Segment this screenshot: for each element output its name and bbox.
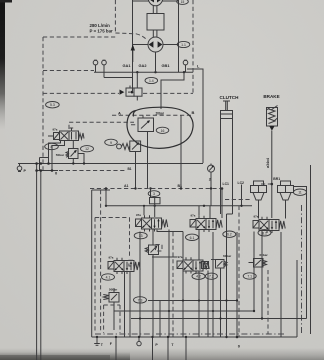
label oval (7.1) [243, 273, 256, 279]
line F to edge [115, 337, 117, 360]
svg-text:A1: A1 [124, 184, 129, 188]
wire drop x169 [168, 230, 170, 338]
LS arrow to pump [131, 45, 135, 63]
label oval (9) [105, 139, 118, 145]
shuttle LC2 [278, 181, 294, 219]
label oval (13) [134, 232, 147, 238]
dashed drop x239 [238, 206, 240, 337]
svg-text:BR1: BR1 [273, 177, 280, 181]
junction GA2 [136, 71, 138, 73]
dashed LC pilot line [90, 188, 223, 190]
test port P left [17, 164, 22, 172]
line P to edge [152, 337, 154, 360]
svg-text:7.1: 7.1 [247, 275, 252, 279]
wire right rail [310, 165, 312, 334]
bus solid [92, 336, 297, 338]
label oval (7.3) [134, 297, 147, 303]
svg-text:50bar: 50bar [109, 288, 118, 292]
wire left field drop [91, 190, 93, 337]
wire rail T horizontal [18, 163, 203, 165]
dashed drop x129.5 [129, 218, 131, 259]
label oval (8) [45, 143, 59, 149]
svg-text:4.2: 4.2 [196, 275, 201, 279]
label oval (12) [81, 146, 94, 152]
wire horizontal y311 [114, 310, 254, 312]
wire rail P horizontal [37, 170, 58, 172]
svg-text:60bar: 60bar [259, 253, 268, 257]
wire GA2 down to valve 1.4 [136, 72, 138, 88]
svg-text:97a: 97a [178, 255, 183, 259]
relief R1 [145, 245, 162, 255]
test port GA2 [102, 60, 107, 77]
label oval (11) [294, 189, 307, 195]
pump P1 [148, 37, 163, 52]
label oval (4.1) [102, 274, 115, 280]
relief R3 60bar [249, 253, 269, 267]
svg-text:P = 175 bar: P = 175 bar [90, 29, 114, 34]
svg-text:GA1: GA1 [123, 63, 132, 68]
wire frame right vertical [178, 0, 180, 72]
dashed enclosure right vertical [192, 0, 194, 93]
supply manifold line [106, 205, 252, 207]
valve 4.1 (V4) [108, 258, 140, 274]
wire clutch line down [226, 214, 228, 337]
port drain circle [137, 337, 141, 346]
wire stub vertical [39, 158, 41, 171]
dash-dot right rail [301, 205, 303, 335]
junction dots on LC line [105, 187, 224, 190]
junction BR1 [271, 183, 274, 186]
junctions y311 [168, 310, 255, 312]
junctions y300 [182, 299, 238, 301]
wire valve8 port B down [52, 141, 65, 171]
dashed pilot GA row [43, 70, 94, 72]
port T1 [94, 337, 100, 345]
wire horizontal y300 [148, 300, 237, 302]
dashed enclosure top [43, 36, 115, 38]
svg-text:8.1: 8.1 [262, 231, 267, 235]
valve 8.1 (C) [253, 217, 285, 233]
junction supply left [105, 205, 107, 207]
dashed crossline y93 left [43, 92, 119, 94]
label oval (8.1) [258, 230, 271, 236]
svg-text:97a: 97a [254, 215, 259, 219]
wire left drop pair B [40, 171, 42, 360]
wire brake line down [271, 131, 273, 218]
test port GA1 [93, 60, 98, 72]
junctions y318 [139, 317, 263, 319]
valve 8 (directional) [48, 128, 84, 141]
svg-text:CLUTCH: CLUTCH [220, 95, 240, 100]
junction supply B [203, 205, 205, 207]
shaft coupling upper [153, 6, 157, 14]
wire drop x160 [159, 301, 161, 338]
wire corner into field [92, 189, 110, 191]
pilot boxlet V4 [129, 260, 134, 266]
dashed rail 0 [59, 170, 126, 172]
clutch master cylinder [221, 101, 233, 214]
dashed drop x100.6 [100, 190, 102, 332]
svg-text:16: 16 [161, 129, 165, 133]
dashed crossline y93 right [143, 92, 193, 94]
relief valve 9 [117, 141, 141, 152]
label oval (16) [156, 127, 169, 133]
wire drop x220.5 [220, 268, 222, 337]
label oval (1.4) [145, 77, 158, 83]
wire L port corner [187, 69, 203, 163]
dashed drop x173 [172, 232, 174, 337]
motor M1 (top circle, cut off) [148, 0, 162, 6]
wire drop x281 [280, 232, 282, 337]
label oval (6.1) [186, 234, 199, 240]
junction pump drain [154, 71, 156, 73]
wire R1 down [152, 255, 154, 338]
svg-text:7.3: 7.3 [138, 298, 143, 302]
svg-text:ø34x4: ø34x4 [266, 158, 270, 168]
brake spring actuator [267, 106, 278, 131]
line T2 to edge [167, 337, 169, 360]
label oval (7.2) [205, 273, 217, 279]
svg-text:97a: 97a [53, 128, 58, 132]
svg-text:LC1: LC1 [223, 182, 230, 186]
svg-text:1.4: 1.4 [149, 79, 154, 83]
wire left drop pair A [36, 164, 38, 360]
wire drop x254 [253, 232, 255, 312]
pilot dashed from text [115, 0, 147, 40]
wire oval11 box corner [294, 187, 307, 319]
valve 13 (A) [136, 215, 168, 231]
valve 4.2 (V5) [177, 257, 209, 273]
relief R4 50bar [103, 288, 119, 331]
svg-text:12: 12 [85, 147, 89, 151]
wire valve A top pin [143, 206, 145, 216]
pilot dashed A-B [112, 114, 191, 116]
svg-text:11: 11 [298, 191, 302, 195]
wire valve B down to V5 [198, 232, 200, 260]
svg-text:50bar: 50bar [56, 153, 65, 157]
wire B pilot down [180, 115, 182, 188]
wire frame left vertical [132, 0, 134, 93]
label oval (3) [148, 191, 160, 197]
wire relief9 down [135, 152, 137, 189]
svg-text:13: 13 [139, 234, 143, 238]
svg-text:6.1: 6.1 [190, 236, 195, 240]
svg-text:20bar: 20bar [156, 111, 165, 115]
wire horizontal y318 [131, 318, 307, 320]
svg-text:GA2: GA2 [139, 63, 148, 68]
svg-text:7.2: 7.2 [209, 275, 214, 279]
junction supply mid [154, 205, 156, 207]
label oval (6.2) [223, 231, 236, 237]
wire drop x208 [207, 271, 209, 338]
wire drop x183 [182, 232, 184, 338]
wire motor right [163, 0, 179, 2]
line x186 to edge [185, 337, 187, 360]
label oval (4.2) [192, 273, 205, 279]
wire A1 node to supply [105, 189, 107, 206]
wire corner under valve A [157, 230, 183, 232]
wire pump right [163, 44, 179, 46]
svg-text:3: 3 [153, 192, 155, 196]
wire row2 link [152, 256, 177, 258]
detent box V5 [202, 262, 209, 269]
photo bottom shadow [0, 348, 324, 360]
hand-drawn annotation ellipse [127, 107, 193, 148]
wire valve A to R1 [152, 230, 154, 246]
test port GB1 [183, 60, 188, 72]
engine box E1 [147, 14, 164, 31]
wire drop x297 [296, 260, 298, 337]
label oval (5.3) [46, 102, 60, 108]
junction [143, 205, 145, 207]
wire valve8 port A down [49, 141, 61, 164]
wire V4 drops [125, 272, 131, 338]
dashed BR pilot stub [261, 183, 272, 185]
svg-text:280 L/min: 280 L/min [90, 23, 111, 28]
dashed box left edge [94, 218, 96, 334]
svg-text:4.1: 4.1 [106, 276, 111, 280]
wire GB1 corner to node [161, 72, 184, 109]
svg-text:1.1: 1.1 [181, 43, 186, 47]
svg-text:6.2: 6.2 [227, 233, 232, 237]
wire GA lower line [104, 77, 133, 79]
shaft coupling lower [153, 30, 157, 37]
wire pump left [133, 44, 149, 46]
wire pump to GA line [155, 52, 157, 72]
wire drop x262 [261, 232, 263, 319]
svg-text:B1: B1 [128, 167, 132, 171]
photo dark left edge [0, 0, 5, 130]
wire drop x237 [236, 232, 238, 337]
svg-text:A: A [118, 111, 121, 116]
wire valve8 to valve12 [72, 141, 74, 149]
svg-text:BRAKE: BRAKE [263, 94, 279, 99]
wire GA manifold line [94, 71, 193, 73]
wire drop x213 [212, 232, 214, 337]
dashed pilot y199 [225, 199, 252, 201]
dashed drop x268 [267, 270, 269, 334]
bus dash-dot [95, 333, 286, 335]
dashed boxlet R4 [104, 305, 120, 333]
wire motor left [133, 0, 149, 2]
valve 6 (B) [190, 216, 222, 232]
svg-text:LC2: LC2 [238, 181, 245, 185]
dashed enclosure left [42, 37, 44, 170]
svg-text:15: 15 [181, 0, 185, 4]
wire LC2 drop [241, 185, 243, 206]
svg-text:60bar: 60bar [223, 254, 232, 258]
pilot dashed to valve 16 [69, 122, 134, 129]
wire stub corner [40, 157, 49, 159]
shuttle LC1 [251, 181, 267, 219]
svg-text:97a: 97a [136, 213, 141, 217]
svg-text:97a: 97a [191, 214, 196, 218]
svg-text:9: 9 [110, 141, 112, 145]
label oval (1.1) [177, 41, 190, 47]
wire valve B top pins [199, 206, 210, 218]
dashed box top stub [95, 217, 130, 219]
junction GB1 [183, 71, 185, 73]
wire gauge down [210, 172, 212, 206]
junction supply LC2 [240, 205, 242, 207]
svg-text:97a: 97a [109, 256, 114, 260]
relief R2 60bar [211, 254, 232, 268]
bus junctions [96, 336, 239, 339]
junctions on rails [35, 162, 85, 172]
valve 12 (reducing) [66, 149, 84, 164]
pressure gauge 2 [208, 164, 215, 173]
label oval (15) top cut [177, 0, 189, 4]
filter 3 [150, 189, 161, 218]
svg-text:B: B [192, 110, 195, 115]
wire drop x199 [198, 271, 200, 338]
valve 16 (in circle) [131, 115, 154, 188]
wire drop x140 [139, 232, 141, 338]
svg-text:5.3: 5.3 [50, 103, 55, 107]
svg-text:8: 8 [51, 145, 53, 149]
wire LC1 down [221, 189, 223, 219]
svg-text:GB1: GB1 [162, 63, 171, 68]
